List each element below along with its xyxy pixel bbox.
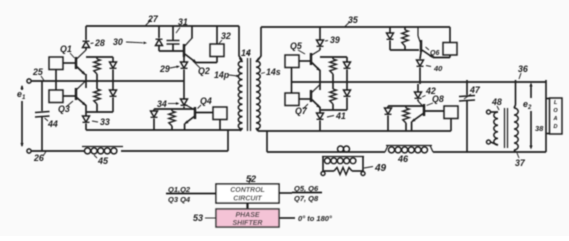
svg-text:A: A — [553, 116, 558, 122]
diode 33 — [83, 116, 110, 130]
wire Q6 group bottom bar — [390, 49, 419, 51]
wire Q5-Q7 junction — [319, 70, 321, 90]
wire Q2 emitter to box — [196, 57, 217, 63]
resistor column left row2 — [94, 81, 100, 112]
transistor Q4 — [184, 96, 212, 124]
current transformer 49 secondary — [322, 157, 364, 172]
svg-text:37: 37 — [515, 158, 526, 168]
wire control to phase shifter — [246, 203, 248, 209]
svg-text:44: 44 — [47, 119, 58, 129]
svg-text:30: 30 — [113, 37, 123, 47]
wire top input rail (mid-left rail) — [31, 80, 184, 82]
svg-text:Q1,Q2: Q1,Q2 — [168, 185, 191, 194]
resistor in Q8 group — [403, 106, 409, 131]
box drive winding Q5 — [285, 55, 310, 82]
wire right column top bar — [320, 56, 347, 58]
box drive winding Q3 — [49, 81, 75, 103]
diode column right row2 — [344, 84, 351, 110]
svg-text:2: 2 — [527, 105, 532, 111]
wire Q6 emitter to box — [433, 55, 450, 58]
svg-text:Q5, Q6: Q5, Q6 — [294, 184, 319, 193]
label Q5,Q6 over Q7,Q8 — [292, 184, 322, 203]
transistor Q1 — [60, 44, 86, 75]
capacitor 47 — [459, 85, 481, 152]
resistor column right row2 — [330, 84, 336, 110]
phase shifter box 53 — [216, 209, 279, 227]
transformer 48 core — [505, 108, 508, 148]
label 14p — [214, 70, 240, 80]
svg-text:35: 35 — [348, 15, 358, 25]
transistor Q2 — [184, 38, 210, 76]
wire right inner line — [258, 130, 451, 132]
svg-text:38: 38 — [535, 124, 544, 133]
diode 42 — [415, 84, 436, 101]
wire left inner bottom line — [86, 129, 240, 131]
wire Q8 group top bar — [388, 105, 423, 107]
wire secondary bottom lead — [257, 128, 259, 131]
wire right mid rail — [292, 81, 547, 83]
svg-text:PHASE: PHASE — [235, 212, 259, 219]
wire 30-31 bottom bar — [159, 50, 184, 52]
wire secondary top lead — [258, 27, 261, 60]
svg-text:49: 49 — [374, 163, 387, 174]
svg-text:41: 41 — [335, 111, 346, 121]
wire bottom rail riser — [227, 130, 229, 151]
wire bottom-center drop — [266, 131, 268, 152]
resistor in Q4 group — [169, 109, 175, 130]
wire right edge — [545, 80, 547, 152]
node terminal 48 bottom — [487, 140, 491, 144]
transformer 48 right winding — [514, 80, 518, 152]
diode 30 — [113, 37, 163, 51]
capacitor C44 lead — [41, 81, 43, 111]
diode 28 — [83, 38, 105, 48]
label 14s — [261, 67, 281, 77]
svg-text:Q8: Q8 — [432, 94, 444, 104]
wire right top rail — [261, 26, 450, 28]
control circuit box 52 — [216, 184, 279, 203]
svg-text:CIRCUIT: CIRCUIT — [233, 196, 262, 203]
transistor Q3 — [58, 81, 86, 115]
svg-text:47: 47 — [469, 85, 481, 95]
diode in Q8 group — [385, 106, 392, 131]
capacitor 47 branch — [466, 80, 468, 95]
wire left top rail — [86, 25, 239, 27]
label 53 — [193, 213, 216, 223]
svg-text:Q6: Q6 — [430, 50, 439, 57]
transistor Q7 — [295, 85, 320, 117]
diode in Q6 group — [387, 27, 394, 50]
svg-text:33: 33 — [100, 117, 110, 127]
svg-text:SHIFTER: SHIFTER — [233, 220, 263, 227]
wire leg below Q2 — [183, 57, 185, 62]
svg-text:25: 25 — [32, 67, 43, 77]
svg-text:O: O — [553, 108, 558, 114]
svg-text:CONTROL: CONTROL — [230, 187, 265, 194]
wire control to Q5Q6 labels — [279, 192, 292, 194]
label 48 — [491, 97, 502, 110]
node terminal 49 right — [361, 172, 365, 176]
svg-text:Q7: Q7 — [295, 106, 308, 116]
transformer 14 primary winding 14p — [238, 58, 242, 131]
diode in Q4 group — [151, 109, 158, 130]
resistor in Q6 group — [402, 27, 408, 50]
wire Q5 leg drop — [319, 27, 321, 40]
svg-text:32: 32 — [221, 31, 231, 41]
winding 45 — [82, 147, 123, 167]
transformer 48 left winding — [491, 112, 499, 145]
svg-text:Q4: Q4 — [200, 96, 212, 106]
wire phase shifter output — [279, 217, 295, 219]
svg-text:0° to 180°: 0° to 180° — [298, 214, 333, 223]
box drive winding Q6 — [443, 27, 457, 55]
label 14 — [241, 48, 251, 58]
wire Q4 emitter drop — [184, 124, 186, 131]
diode column left row1 — [110, 57, 117, 81]
svg-text:Q7, Q8: Q7, Q8 — [294, 194, 319, 203]
node input terminal 26 (bottom) — [27, 149, 46, 163]
svg-text:31: 31 — [178, 17, 188, 27]
wire Q4 group top bar — [154, 108, 194, 110]
wire primary bottom lead — [239, 128, 241, 131]
wire bottom-left rail — [31, 150, 228, 152]
box drive winding Q8 — [444, 106, 458, 131]
svg-text:26: 26 — [33, 153, 44, 163]
svg-text:45: 45 — [97, 156, 109, 166]
svg-text:34: 34 — [157, 99, 167, 109]
wire primary top lead — [239, 26, 242, 60]
wire bottom-center line — [267, 151, 546, 153]
wire Q2 collector from rail — [191, 26, 193, 39]
dimension arrow e1 — [20, 85, 23, 147]
svg-text:40: 40 — [433, 64, 443, 73]
svg-text:28: 28 — [94, 38, 105, 48]
resistor column right row1 — [330, 57, 336, 84]
wire left column bottom bar — [86, 111, 113, 113]
svg-text:48: 48 — [491, 97, 502, 107]
svg-text:14p: 14p — [214, 70, 230, 80]
svg-text:Q1: Q1 — [60, 44, 72, 54]
wire Q8 base to box — [425, 110, 444, 112]
wire Q4 base to box — [196, 112, 213, 114]
box drive winding Q7 — [285, 82, 310, 106]
svg-text:36: 36 — [518, 64, 528, 74]
diode 39 — [317, 35, 340, 50]
capacitor 31 — [167, 17, 188, 51]
transistor Q8 — [411, 94, 444, 122]
resistor burden 49 — [334, 168, 352, 175]
label 35 — [345, 15, 358, 27]
diode column left row2 — [110, 81, 117, 112]
diode 41 — [317, 107, 346, 131]
wire right column bottom bar — [320, 109, 347, 111]
label 0 to 180 degrees — [298, 214, 333, 223]
transformer 14 secondary winding 14s — [256, 58, 260, 131]
box drive winding Q4 — [213, 107, 227, 130]
resistor column left row1 — [94, 57, 100, 81]
node input terminal 25 (top) — [27, 67, 44, 83]
winding 46 — [385, 146, 433, 165]
label 36 — [518, 64, 528, 79]
label 37 — [515, 153, 526, 168]
current transformer 49 primary — [338, 146, 350, 152]
box drive winding Q1 — [49, 57, 75, 81]
wire Q1-Q3 junction — [85, 74, 87, 88]
svg-text:D: D — [554, 124, 558, 130]
wire Q8 emitter drop — [411, 122, 413, 132]
diode column right row1 — [344, 57, 351, 84]
transistor Q6 — [418, 27, 439, 58]
label e1 input voltage — [17, 89, 26, 101]
diode 29 — [159, 62, 188, 81]
load box 38 — [535, 98, 562, 134]
svg-text:39: 39 — [330, 35, 340, 45]
svg-text:14: 14 — [241, 48, 251, 58]
box drive winding 32 — [210, 26, 231, 57]
label 52 — [246, 174, 256, 184]
wire diode28 to Q1 — [85, 48, 87, 51]
wire Q1 collector drop — [85, 26, 87, 40]
svg-text:46: 46 — [397, 154, 409, 164]
dimension arrow e2 — [529, 83, 532, 150]
wire Q3 emitter down — [85, 105, 87, 116]
label Q1,Q2 over Q3 Q4 — [166, 185, 216, 204]
label 49 — [364, 163, 387, 174]
svg-text:Q3 Q4: Q3 Q4 — [168, 195, 191, 204]
label 27 — [146, 14, 159, 26]
node terminal 49 left — [321, 172, 325, 176]
svg-text:14s: 14s — [266, 67, 281, 77]
diode 34 — [157, 81, 188, 109]
node terminal 48 top — [487, 110, 491, 114]
wire left column top bar — [86, 56, 113, 58]
svg-text:Q5: Q5 — [290, 41, 302, 51]
svg-text:29: 29 — [159, 64, 170, 74]
transistor Q5 — [290, 41, 320, 71]
diode 40 — [417, 52, 444, 84]
transformer 14 core — [248, 58, 251, 131]
capacitor 44 — [35, 112, 58, 152]
label e2 — [523, 99, 532, 111]
svg-text:53: 53 — [193, 213, 203, 223]
wire 30-31 pair drop — [159, 26, 173, 40]
